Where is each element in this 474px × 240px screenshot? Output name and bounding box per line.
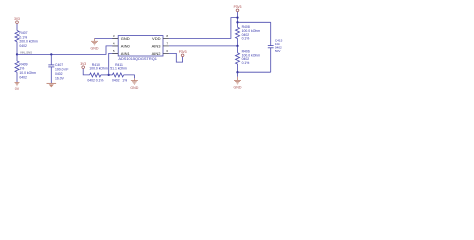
wire VIN_SNS to pin 4 [17,46,118,55]
svg-text:AIN3: AIN3 [152,43,162,48]
ground GND divider [234,72,242,89]
svg-text:GND: GND [234,85,242,89]
svg-text:GND: GND [121,36,130,41]
svg-text:100.0 nF: 100.0 nF [55,68,68,72]
svg-text:200.0 kOhm: 200.0 kOhm [19,40,38,44]
svg-text:16.0V: 16.0V [55,77,65,81]
junction R410/R411/AIN1 [108,74,110,76]
resistor R410 [87,63,108,82]
junction divider mid [236,45,238,47]
svg-text:ADS1015QDGSTRQ1: ADS1015QDGSTRQ1 [118,56,156,61]
capacitor C415 [268,22,283,72]
svg-text:3V3: 3V3 [14,17,20,21]
wire AIN2 [169,53,183,62]
svg-text:P3V3: P3V3 [234,5,242,9]
resistor R409 [15,54,36,82]
svg-text:AIN0: AIN0 [121,43,131,48]
svg-text:0V: 0V [15,87,20,91]
svg-text:100.0 kOhm: 100.0 kOhm [89,66,108,70]
svg-text:0402: 0402 [112,78,120,82]
power port 3V3 at AIN2 [179,50,187,57]
svg-text:1%: 1% [122,78,127,82]
svg-text:0402: 0402 [19,76,27,80]
svg-text:0402: 0402 [55,72,63,76]
wire AIN3 [169,45,238,47]
svg-text:51.1 kOhm: 51.1 kOhm [110,66,127,70]
IC U401 ADC [112,34,169,61]
svg-text:0.1%: 0.1% [19,35,27,39]
resistor R407 [15,31,38,49]
resistor R408 [236,25,261,46]
svg-text:GND: GND [91,47,99,51]
wire divider bottom to cap [238,71,271,73]
svg-text:0.1%: 0.1% [96,78,104,82]
junction VDD tee [236,16,238,18]
power ground under C407 [47,83,57,87]
ground GND under R411 [130,78,138,90]
wire AIN1 riser [109,53,119,75]
svg-text:VDD: VDD [152,36,161,41]
svg-text:0402: 0402 [87,78,95,82]
ground 0V under R409 [15,82,20,91]
ground GND at IC pin 3 [91,38,119,50]
resistor R411 [109,63,135,82]
power port 3V3 top-left [14,17,20,31]
wire R407 bottom [16,42,18,55]
svg-text:R409: R409 [19,62,27,66]
junction C407 tap [50,53,52,55]
junction divider bottom [236,71,238,73]
svg-text:0402: 0402 [19,44,27,48]
resistor R406 [236,46,261,72]
svg-text:C407: C407 [55,63,63,67]
svg-text:GND: GND [130,86,138,90]
capacitor C407 [48,54,68,83]
svg-text:P3V3: P3V3 [179,50,187,54]
power port 3V3 at R410 [80,62,89,75]
svg-text:R407: R407 [19,31,27,35]
svg-text:1%: 1% [19,67,24,71]
wire cap top branch [238,21,271,23]
junction cap tee [236,21,238,23]
power port 3V3 top-right [234,5,242,27]
wire VDD to rail [169,18,238,39]
svg-text:0.1%: 0.1% [242,61,250,65]
svg-text:0.1%: 0.1% [242,36,250,40]
svg-text:10.0 kOhm: 10.0 kOhm [19,71,36,75]
junction left node [16,53,18,55]
svg-text:50V: 50V [275,49,281,53]
